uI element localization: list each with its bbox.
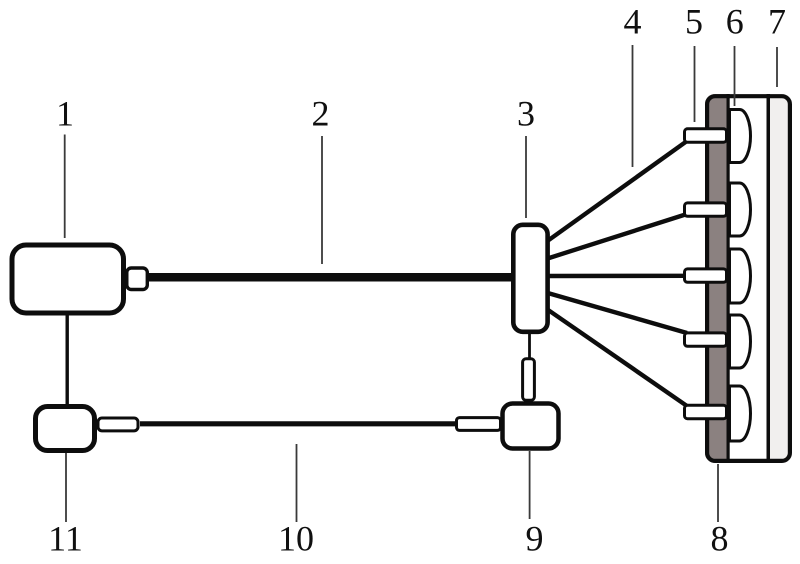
wire: vertical link between distributor 3 and box 9 — [528, 332, 531, 360]
svg-text:2: 2 — [312, 94, 330, 134]
wire: fan line 2 from distributor 3 to connector 5b — [546, 214, 687, 259]
svg-text:10: 10 — [278, 519, 314, 559]
wire: fan line 4 from distributor 3 to connector 5d — [546, 293, 687, 334]
bump 6c — [730, 249, 751, 303]
inner line left — [727, 94, 730, 463]
light strip 7 — [770, 94, 788, 463]
wire: cable 10 from box 11 to box 9 — [140, 421, 458, 426]
panel outer border — [707, 96, 790, 461]
leader line for label 11 — [65, 453, 67, 522]
svg-text:8: 8 — [711, 519, 729, 559]
box 11 — [36, 407, 95, 451]
leader line for label 1 — [64, 135, 66, 239]
inner line right — [767, 94, 771, 463]
svg-text:4: 4 — [624, 2, 642, 42]
svg-text:11: 11 — [48, 519, 83, 559]
panel assembly 6/7/8 — [705, 94, 792, 463]
leader line for label 8 — [717, 464, 719, 522]
connector 5a — [685, 129, 727, 142]
connector 5d — [685, 333, 727, 346]
leader line for label 5 — [694, 46, 696, 122]
box 1 (control unit) — [12, 245, 124, 313]
leader line for label 7 — [776, 47, 778, 87]
svg-text:5: 5 — [685, 2, 703, 42]
wire: fan line 3 from distributor 3 to connector 5c — [546, 274, 687, 279]
svg-text:6: 6 — [726, 2, 744, 42]
distributor 3 — [513, 225, 547, 332]
connector on box 11 — [98, 418, 138, 431]
wire: fan line 1 from distributor 3 to connector 5a — [546, 141, 687, 242]
bump 6d — [730, 315, 751, 368]
leader line for label 6 — [734, 46, 736, 106]
connector 5c — [685, 269, 727, 282]
wire: thick cable 2 from box 1 to distributor 3 — [146, 273, 516, 282]
connector 5e — [685, 405, 727, 418]
leader line for label 2 — [321, 136, 323, 264]
wire: fan line 5 from distributor 3 to connector 5e — [546, 309, 687, 407]
connector on box 9 — [457, 418, 501, 431]
wire: vertical link between box 1 and box 11 — [65, 313, 68, 406]
leader line for label 4 — [632, 45, 634, 167]
leader line for label 9 — [529, 451, 531, 519]
connector on box 1 — [127, 268, 148, 290]
box 9 — [503, 404, 559, 449]
svg-text:1: 1 — [56, 94, 74, 134]
svg-text:7: 7 — [768, 2, 786, 42]
dark strip 8 — [705, 94, 727, 463]
bump 6a — [730, 110, 751, 163]
leader line for label 3 — [525, 136, 527, 218]
connector 5b — [685, 203, 727, 216]
leader line for label 10 — [296, 444, 298, 522]
svg-text:3: 3 — [517, 94, 535, 134]
svg-text:9: 9 — [526, 519, 544, 559]
bump 6e — [730, 386, 751, 441]
inline connector between 3 and 9 — [523, 359, 535, 401]
bump 6b — [730, 183, 751, 236]
